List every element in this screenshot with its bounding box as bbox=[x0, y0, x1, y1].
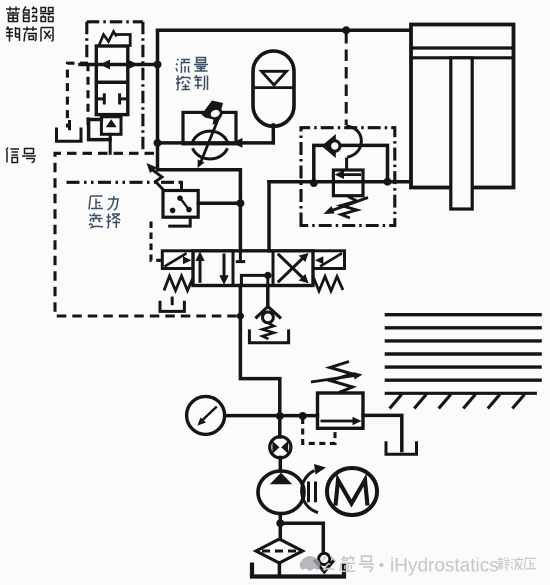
wire: selector bottom stub bbox=[170, 217, 191, 226]
wire: unloading valve arrow line bbox=[80, 63, 158, 67]
bypass check valve CV3 bbox=[314, 553, 335, 572]
tank T1 (left of V1) bbox=[57, 120, 82, 141]
PS1 proportional zigzag arrow bbox=[147, 163, 164, 190]
wire: selector top stub bbox=[180, 182, 183, 190]
FC1 temperature-compensation ellipse with flag bbox=[202, 101, 224, 125]
accumulator unloading valve V1 body bbox=[96, 46, 128, 115]
node: bypass right junction bbox=[384, 178, 392, 186]
wire: cylinder rod-side line bbox=[269, 180, 411, 184]
counterbalance valve CB1 body bbox=[333, 170, 363, 196]
tank T2 (below left solenoid) bbox=[160, 297, 184, 312]
signal dash-dot-dot line to pressure selector bbox=[67, 181, 182, 184]
node: unloading/main junction bbox=[154, 61, 162, 69]
FC1 restrictor arcs bbox=[193, 131, 228, 159]
wire: relief valve outlet to tank bbox=[363, 415, 402, 450]
wire: unloading pilot drop bbox=[109, 134, 112, 153]
label: 蓄能器 (accumulator) bbox=[6, 7, 54, 22]
counterbalance pilot dashed from top line bbox=[345, 32, 348, 125]
label: 流量 / 控制 (flow control) bbox=[176, 58, 208, 91]
wire: gauge line bbox=[226, 414, 317, 418]
flow direction arrowhead on accumulator line bbox=[232, 138, 243, 148]
accumulator A1 bbox=[253, 51, 294, 126]
wire: check valve stub under valve bbox=[266, 286, 270, 307]
tank T3 (relief drain) bbox=[386, 441, 417, 454]
counterbalance enclosure dash-dot bbox=[301, 128, 395, 226]
DV1 right position crossed arrows bbox=[278, 253, 309, 283]
accumulator unloading enclosure dash-dot bbox=[87, 22, 143, 150]
DV1 left position arrows bbox=[195, 252, 228, 285]
directional valve DV1 body bbox=[193, 251, 313, 286]
wire: unloading spring pilot link bbox=[116, 35, 130, 46]
node: flow control junction bbox=[154, 139, 162, 147]
load stack lines bbox=[385, 315, 542, 381]
node: gauge line junction bbox=[276, 412, 284, 420]
pump P1 bbox=[258, 471, 304, 514]
wire: pressure selector output bbox=[198, 201, 240, 205]
wire: flow-control line to accumulator bbox=[158, 141, 274, 145]
spring-loaded check valve CV2 (below DV1) bbox=[249, 307, 288, 343]
RV1 spring with adjust arrow bbox=[311, 362, 363, 393]
node: dashed box bottom junction bbox=[237, 312, 244, 319]
wire: main vertical trunk bbox=[156, 30, 160, 170]
wire: valve T port down to pump line bbox=[240, 286, 279, 417]
pilot box dashed (left of unloading valve) bbox=[67, 63, 88, 127]
label: 信号 (signal) bbox=[6, 148, 36, 163]
counterbalance pilot hop over bypass bbox=[346, 126, 361, 170]
wire: counterbalance bypass loop bbox=[314, 145, 388, 183]
FC1 adjust arrow bbox=[201, 122, 217, 162]
node: pilot branch on top line bbox=[342, 26, 350, 34]
watermark: 公众号 · iHydrostatics静液压 bbox=[322, 556, 374, 572]
label: 压力 / 选择 (pressure selection) bbox=[89, 196, 120, 228]
flow meter FM1 bbox=[270, 437, 291, 458]
wire: unloading valve drain C-path bbox=[89, 120, 111, 140]
pressure selector PS1 bbox=[163, 191, 198, 218]
coupling bars bbox=[309, 482, 316, 503]
wire: pump suction and branch bbox=[279, 514, 323, 576]
tank T4 (main reservoir) bbox=[252, 563, 344, 577]
V1 pilot box with triangle bbox=[101, 117, 121, 135]
filter F1 bbox=[256, 539, 303, 563]
DV1 centre position: blocked A + elbow path bbox=[236, 252, 272, 286]
ground baseline with hatching bbox=[385, 393, 537, 408]
motor M1 bbox=[327, 468, 377, 515]
wire: cylinder line vertical to valve B port bbox=[267, 182, 271, 251]
CB1 spring with adjust arrow bbox=[324, 197, 369, 219]
V1 blocked ports (bottom box) bbox=[96, 93, 128, 104]
counterbalance check valve CV1 (diagonal) bbox=[322, 134, 340, 158]
node: relief pilot junction bbox=[299, 412, 307, 420]
cylinder CYL1 bbox=[411, 25, 514, 210]
wire: flow meter stubs bbox=[278, 416, 282, 471]
node: selector junction bbox=[236, 199, 244, 207]
pressure gauge G1 bbox=[187, 396, 225, 434]
V1 spring (top, slanted) bbox=[99, 32, 117, 46]
flow control valve FC1 bbox=[183, 101, 236, 169]
label: 卸荷阀 (unloading valve) bbox=[6, 27, 53, 42]
svg-text:iHydrostatics: iHydrostatics bbox=[390, 556, 499, 577]
relief valve RV1 bbox=[318, 393, 364, 428]
V1 flow arrow (top box, pointing left) bbox=[100, 60, 139, 70]
DV1 right solenoid S2 bbox=[313, 251, 345, 269]
relief valve remote pilot dashed bbox=[303, 418, 335, 443]
dashed signal line to left solenoid bbox=[151, 222, 162, 261]
rotation arrow arc bbox=[302, 464, 326, 513]
signal enclosure dashed box bbox=[55, 153, 238, 316]
DV1 left return spring bbox=[164, 276, 193, 291]
node: pump suction branch junction bbox=[276, 519, 284, 527]
wire: top supply line to cylinder bbox=[158, 28, 411, 32]
watermark icon bbox=[300, 556, 321, 571]
DV1 right return spring bbox=[314, 277, 344, 292]
wire: accumulator stem bbox=[272, 125, 276, 143]
node: bypass left junction bbox=[310, 179, 318, 187]
DV1 left solenoid S1 bbox=[162, 251, 193, 269]
wire: L-path to directional valve P port bbox=[158, 170, 241, 251]
